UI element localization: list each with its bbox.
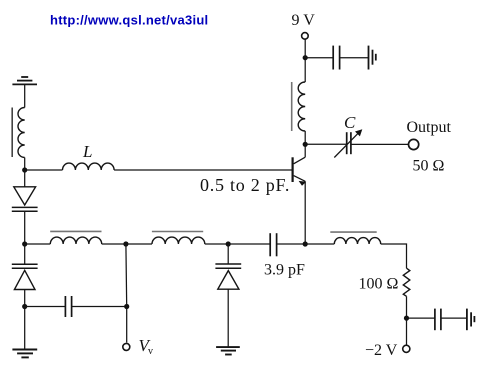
node B 9V junction [303,55,308,60]
node J junction [124,304,129,309]
wire 9V junction to capacitor C1 [305,57,333,59]
wire node H to -2V terminal [406,318,408,344]
node D junction [22,241,27,246]
wire capacitor C3 to ground G3 [441,317,467,319]
core bar of L2 [291,82,293,131]
node E junction [123,241,128,246]
svg-text:Output: Output [407,119,452,136]
wire node A to inductor L [25,169,63,171]
ground G1 top-left [12,77,37,84]
wire node D to inductor L3 [25,243,51,245]
wire ground G1 to inductor L1 [24,84,26,107]
core bar of L1 [11,108,13,158]
inductor L4 [152,237,205,244]
wire collector junction to variable capacitor C [305,143,347,145]
wire node I to ground G4 [24,307,26,350]
capacitor C3 (bypass at -2V) [435,309,441,331]
node F junction [226,241,231,246]
inductor L2 (vertical, collector) [298,82,305,131]
wire emitter down to node G [304,181,306,244]
inductor L1 (vertical RF choke, left) [18,108,25,158]
node G junction [303,241,308,246]
capacitor C2 3.9pF [270,233,276,256]
terminal 9V [302,33,309,40]
variable capacitor C [334,129,362,157]
wire varactor D1 to node D [24,211,26,244]
svg-text:C: C [344,113,356,132]
capacitor C4 (feedback) [65,296,71,317]
svg-text:−2 V: −2 V [365,342,398,359]
resistor R1 100 ohm [403,268,410,296]
wire L3 to node E [102,243,126,245]
core bar of L4 [152,231,203,233]
svg-text:v: v [148,346,153,357]
ground G4 (bottom-left) [12,350,37,358]
terminal Output [409,139,419,149]
wire L4 to node F [205,243,228,245]
core bar of L3 [50,230,101,232]
inductor L3 [50,237,101,244]
wire collector junction up to inductor L2 [304,131,306,144]
wire node F down to varactor D3 [227,244,229,264]
inductor L [63,163,115,170]
wire node H to capacitor C3 [407,317,435,319]
inductor L5 [334,238,380,244]
capacitor C1 (supply bypass) [333,46,339,70]
terminal -2V [403,345,410,352]
wire variable capacitor to output terminal [351,143,409,145]
svg-text:50 Ω: 50 Ω [413,158,445,175]
svg-text:0.5 to 2 pF.: 0.5 to 2 pF. [200,175,290,195]
svg-text:100 Ω: 100 Ω [359,276,399,293]
wire node J to Vv terminal [126,307,128,343]
svg-text:L: L [82,142,92,161]
svg-text:3.9 pF: 3.9 pF [264,262,305,279]
svg-text:http://www.qsl.net/va3iul: http://www.qsl.net/va3iul [50,12,208,27]
wire capacitor C4 to node J [72,306,127,308]
terminal Vv [123,343,130,350]
wire node A down to varactor D1 [24,170,26,187]
core bar of L5 [330,231,376,233]
wire node D down to varactor D2 [24,244,26,264]
wire capacitor C1 to ground G2 [340,57,369,59]
wire L to transistor base [114,169,292,171]
node A junction [22,167,27,172]
svg-text:9 V: 9 V [292,12,316,29]
wire L5 to resistor R1 [381,244,407,268]
ground G3 (right-facing, bottom) [467,309,475,331]
wire varactor D3 to ground G5 [227,289,229,347]
wire node G to inductor L5 [305,243,334,245]
wire node E down through node J [125,244,128,307]
varactor D3 [215,264,241,289]
wire L2 up to 9V node [304,58,306,82]
wire node I to capacitor C4 [25,306,66,308]
node H junction [404,316,409,321]
wire node E to inductor L4 [126,243,152,245]
transistor Q1 [293,144,307,185]
wire varactor D2 to node I [24,289,26,307]
node I junction [22,304,27,309]
varactor D1 [12,187,38,212]
wire resistor R1 to node H [406,296,408,318]
varactor D2 [12,264,38,289]
wire 9V junction up to terminal [304,40,306,58]
ground G2 (right-facing, top) [369,46,376,70]
ground G5 (bottom-middle) [216,347,240,354]
node C collector junction [303,142,308,147]
wire L1 to node A [24,158,26,171]
wire node F to capacitor C2 [228,243,270,245]
wire capacitor C2 to emitter node G [277,243,306,245]
